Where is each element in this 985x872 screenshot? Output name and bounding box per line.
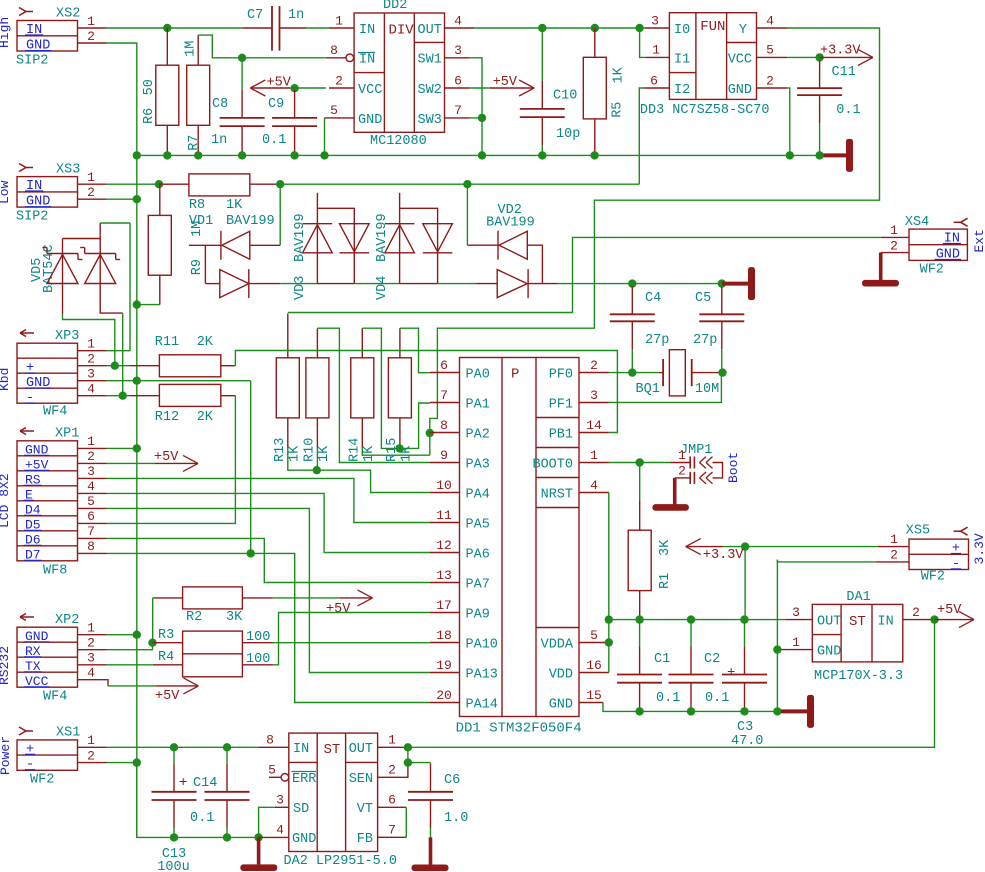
svg-text:5: 5 [87,494,95,509]
pin 20 DD1 PA14 [430,702,460,704]
svg-text:1: 1 [792,635,800,650]
pin 1 XP1 [78,447,107,449]
svg-text:5: 5 [590,628,598,643]
svg-text:Ext: Ext [972,229,985,252]
pin 4 XP3 [78,395,107,397]
capacitor C5 27p [721,284,723,287]
junction [133,758,141,766]
pin 2 XS1 [78,762,107,764]
svg-text:IN: IN [26,179,42,194]
svg-text:C14: C14 [193,776,217,791]
svg-text:15: 15 [586,688,602,703]
svg-text:0.1: 0.1 [656,691,680,706]
svg-text:PA5: PA5 [466,518,490,533]
svg-text:-: - [26,758,34,773]
svg-text:10M: 10M [695,382,719,397]
+3.3V distribution rail [609,619,786,621]
svg-text:BAV199: BAV199 [375,213,390,262]
svg-text:LCD 8X2: LCD 8X2 [0,473,12,528]
pin 1 DD1 BOOT0 [579,462,609,464]
junction DA2 OUT [404,743,412,751]
R4 left lead [153,664,183,666]
svg-text:VT: VT [357,802,373,817]
svg-text:+5V: +5V [267,76,292,91]
wire VD2 to C4/C5 ground rail [558,283,731,285]
svg-text:6: 6 [650,74,658,89]
pin 5 DD3 VCC [757,56,788,58]
pin 11 DD1 PA5 [430,522,460,524]
svg-text:10: 10 [436,478,452,493]
svg-text:IN: IN [359,23,375,38]
pin 15 DD1 GND [579,702,603,704]
svg-text:6: 6 [454,74,462,89]
svg-text:DA2 LP2951-5.0: DA2 LP2951-5.0 [284,854,397,869]
junction [133,631,141,639]
svg-text:Boot: Boot [726,452,741,483]
capacitor C3 47.0 [744,620,746,647]
svg-text:VD4: VD4 [375,276,390,300]
wire R2 left down to R3 node [152,598,154,643]
svg-text:R6: R6 [142,108,157,124]
resistor R2 3K [183,587,243,609]
svg-text:1: 1 [678,448,686,463]
svg-text:BAV199: BAV199 [486,216,535,231]
pin 1 DD3 I1 [646,56,669,58]
svg-text:MC12080: MC12080 [370,134,427,149]
svg-text:GND: GND [936,248,960,263]
svg-text:6: 6 [440,358,448,373]
wire main vertical to power GND rail [137,763,259,838]
svg-text:IN: IN [359,53,375,68]
power +5V arrow (XP2 VCC) [107,680,108,686]
pin 1 XP3 [78,350,107,352]
wire VD5 right to XP3.4 [122,313,124,396]
svg-text:XP1: XP1 [55,427,79,442]
wire XP1.GND to main vertical [107,447,137,449]
svg-text:RS232: RS232 [0,646,12,685]
svg-text:3: 3 [276,793,284,808]
svg-text:4: 4 [454,14,462,29]
svg-text:R12: R12 [155,410,179,425]
IC DD1 STM32F050F4 microcontroller [460,358,580,717]
pin 7 XP1 [78,537,107,539]
pin 17 DD1 PA9 [430,612,460,614]
svg-text:1: 1 [87,170,95,185]
svg-text:PA10: PA10 [466,638,498,653]
svg-text:PA4: PA4 [466,488,490,503]
junction R10 bottom [313,466,321,474]
svg-text:OUT: OUT [349,742,373,757]
svg-text:MCP170X-3.3: MCP170X-3.3 [814,669,903,684]
svg-text:FUN: FUN [700,19,725,35]
svg-text:WF4: WF4 [43,405,67,420]
wire XS2.1 to C7/DD2.IN [107,27,243,29]
wire VD1 bottom to clamp bus [280,283,317,285]
svg-text:R4: R4 [158,650,174,665]
svg-text:C5: C5 [695,291,711,306]
svg-text:2: 2 [590,358,598,373]
svg-text:SIP2: SIP2 [16,210,48,225]
wire main GND vertical (left column) [136,155,138,837]
svg-text:XS5: XS5 [906,524,930,539]
pin 12 DD1 PA6 [430,552,460,554]
wire OUT node down [408,747,431,762]
connector XS1 (Power, WF2) [17,740,78,770]
svg-text:IN: IN [944,232,960,247]
pin 8 XP1 [78,552,107,554]
svg-text:DA1: DA1 [846,590,870,605]
wire XP3.1 up to VD5 [107,223,130,351]
wire VD1 top to R8 junction [279,184,281,245]
pin 3 DD1 PF1 [579,402,609,404]
junction [741,542,749,550]
power +3.3V arrow (top right) [820,56,873,58]
pin 2 XS4 [881,252,909,254]
pin 2 DD1 PF0 [579,372,609,374]
svg-text:SEN: SEN [349,772,373,787]
junction C13 bottom [170,833,178,841]
svg-text:R1: R1 [658,573,673,589]
svg-text:1: 1 [87,733,95,748]
wire XP1.RS to PA5 [107,478,430,522]
svg-text:2K: 2K [197,410,214,425]
svg-text:PA2: PA2 [466,428,490,443]
svg-text:1: 1 [335,14,343,29]
svg-text:13: 13 [436,568,452,583]
svg-text:High: High [0,17,12,48]
svg-text:WF2: WF2 [30,773,54,788]
pin 4 DD3 Y [757,27,788,29]
junction C1 bottom [635,707,643,715]
svg-text:SD: SD [293,802,309,817]
svg-text:VCC: VCC [728,53,752,68]
junction C11 top [815,53,823,61]
wire BOOT0 to JMP1 [609,462,671,464]
connector XP3 (Kbd, WF4) [17,343,78,403]
power +5V arrow (DD2 VCC) [250,80,265,88]
svg-text:1: 1 [388,733,396,748]
resistor R10 1K [316,328,318,358]
pin 8 DD2 /IN with bubble [326,57,346,59]
junction C11 bottom [815,151,823,159]
svg-text:+: + [26,742,34,757]
wire Ext joint down to VD2 [466,184,468,245]
svg-text:VD3: VD3 [293,276,308,300]
svg-text:7: 7 [388,823,396,838]
svg-text:I1: I1 [674,53,690,68]
svg-text:1: 1 [590,448,598,463]
resistor R5 1K [594,28,596,57]
pin 8 DD1 PA2 [430,432,460,434]
R3 left lead [153,642,183,644]
pin 2 XP1 [78,462,107,464]
svg-text:Kbd: Kbd [0,368,12,391]
svg-text:Y: Y [739,23,747,38]
junction C14 bottom [223,833,231,841]
capacitor C7 1n [243,27,272,29]
wire XP3.3 column down to D7 row [250,381,252,554]
svg-text:100u: 100u [157,860,189,872]
wire DD2.OUT to DD3 inputs [474,27,645,29]
svg-text:C8: C8 [212,97,228,112]
junction VD5 left leg [111,362,119,370]
capacitor C14 0.1 [226,747,228,764]
wire DD3.GND to bus [787,88,790,155]
junction VDDA [605,638,613,646]
svg-text:Low: Low [0,180,12,204]
ground symbol bottom rail [781,709,807,713]
pin 3 XP1 [78,477,107,479]
ground symbol DA2 [257,837,261,864]
svg-text:1n: 1n [288,8,304,23]
capacitor C9 0.1 [294,88,296,90]
capacitor C6 1.0 [430,763,432,764]
pin 1 XS5 [878,546,909,548]
wire XP1.D7 to PA14 [107,553,430,702]
junction Ext/VD joint [463,180,471,188]
diode pair VD4 BAV199 [399,193,401,284]
resistor R6 50 [166,28,168,65]
pin 4 DD1 NRST [579,492,609,494]
wire XS3.2 to main GND vertical [107,198,137,200]
svg-text:+5V: +5V [326,602,351,617]
pin 18 DD1 PA10 [430,642,460,644]
VD5 left anode lead [62,284,64,314]
pin 6 DA2 VT [378,806,407,808]
svg-text:R5: R5 [611,102,626,118]
pin 2 DD2 VCC [329,87,354,89]
capacitor C11 0.1 [819,57,821,60]
svg-text:BOOT0: BOOT0 [532,458,573,473]
svg-text:2: 2 [388,763,396,778]
svg-text:I0: I0 [674,23,690,38]
wire XP2.RX up to R3 node [107,643,153,650]
junction DA1 GND column [773,707,781,715]
GND bus (top) [137,154,820,156]
pin 3 DD2 SW1 [445,57,470,59]
wire +3.3V column to C3 [744,547,746,620]
pin 7 DD2 SW3 [445,117,470,119]
svg-text:I2: I2 [674,83,690,98]
wire between VD3 and VD4 [354,283,399,285]
svg-text:27p: 27p [693,333,717,348]
svg-text:+5V: +5V [937,603,962,618]
wire +5V to DD2 pin2 [295,87,326,89]
junction C5 top [718,279,726,287]
wire XP3.3 to D7 column [107,380,251,382]
svg-text:8: 8 [330,43,338,58]
svg-text:DD1 STM32F050F4: DD1 STM32F050F4 [456,721,582,737]
svg-text:+3.3V: +3.3V [703,548,744,563]
svg-text:R7: R7 [187,135,202,151]
capacitor C13 100u [173,747,175,764]
junction PA2 node [426,429,434,437]
pin 6 XP1 [78,522,107,524]
wire R13/R10 bottoms to PA4 [288,448,430,493]
svg-text:IN: IN [293,742,309,757]
wire VD4 to VD2 [438,283,476,285]
svg-text:1K: 1K [226,198,243,213]
svg-text:+: + [179,775,187,791]
svg-text:PA9: PA9 [466,608,490,623]
wire VD5 left to XP3.2 [63,314,115,366]
resistor R13 1K [287,314,289,358]
svg-text:8: 8 [440,418,448,433]
junction C10 top [538,24,546,32]
pin 1 DD2 IN [329,27,354,29]
junction C10 bottom [538,151,546,159]
svg-text:1.0: 1.0 [444,811,468,826]
pin 19 DD1 PA13 [430,672,460,674]
wire NRST to VDD column [608,493,610,673]
svg-text:10p: 10p [556,127,580,142]
wire XP1.D4 to PA13 [107,508,430,672]
pin 4 XP2 [78,679,107,681]
junction C6 tap [404,758,412,766]
svg-text:+: + [727,665,735,681]
svg-text:C10: C10 [553,88,577,103]
connector XS5 (3.3V out, WF2) [909,539,969,569]
pin 9 DD1 PA3 [430,462,460,464]
IC DD2 MC12080 prescaler [354,13,444,132]
pin 2 XP3 [78,365,107,367]
pin 13 DD1 PA7 [430,582,460,584]
svg-text:9: 9 [440,448,448,463]
svg-text:20: 20 [436,688,452,703]
svg-text:PA14: PA14 [466,698,498,713]
svg-text:2: 2 [87,185,95,200]
svg-text:GND: GND [26,39,50,54]
svg-text:R10: R10 [303,438,318,462]
junction C8 top [238,54,246,62]
svg-text:3K: 3K [658,539,673,556]
wire PF1 to crystal [609,373,722,403]
svg-text:1: 1 [87,621,95,636]
pin 10 DD1 PA4 [430,492,460,494]
wire XS2.2 down to GND bus [107,43,137,155]
svg-text:SW3: SW3 [418,113,442,128]
svg-text:2: 2 [87,449,95,464]
svg-text:2: 2 [87,352,95,367]
pin 2 DA1 IN [903,619,933,621]
svg-text:2: 2 [678,464,686,479]
connector XS3 (Low input, SIP2) [17,177,78,208]
svg-text:PA6: PA6 [466,548,490,563]
svg-text:50: 50 [142,79,157,95]
power +3.3V arrow (XS5) [686,546,723,548]
svg-text:4: 4 [590,478,598,493]
svg-text:DD2: DD2 [383,0,407,13]
svg-text:0.1: 0.1 [705,691,729,706]
svg-text:3: 3 [590,388,598,403]
svg-text:8: 8 [87,539,95,554]
svg-text:6: 6 [87,509,95,524]
svg-text:5: 5 [330,103,338,118]
junction PF1/C5/BQ1 [718,368,726,376]
pin 2 XS5 [876,561,909,563]
wire XS1.- to main vertical [107,762,137,764]
pin 1 DA1 GND [777,649,812,651]
svg-text:5: 5 [766,43,774,58]
junction C14 top [223,743,231,751]
junction PF0/C4/BQ1 [628,368,636,376]
IC DA1 MCP170X-3.3 regulator [812,604,903,662]
VD5 common cathode link [63,238,101,240]
svg-text:XS2: XS2 [56,7,80,22]
junction R6 bottom [163,151,171,159]
wire XS3.1 to R8 [107,183,159,185]
svg-text:R9: R9 [190,259,205,275]
wire XP2.GND to main vertical [107,634,137,636]
svg-text:2: 2 [87,749,95,764]
svg-text:C11: C11 [832,65,856,80]
svg-text:3: 3 [454,43,462,58]
svg-text:WF8: WF8 [43,564,67,579]
wire XP1.E to PA6 [107,493,430,552]
svg-text:BQ1: BQ1 [636,382,660,397]
svg-text:DD3 NC7SZ58-SC70: DD3 NC7SZ58-SC70 [640,103,770,118]
power +5V arrow (XP1) [107,462,155,464]
svg-text:C9: C9 [268,97,284,112]
svg-text:3: 3 [792,605,800,620]
svg-text:1: 1 [890,532,898,547]
junction C8 bottom [238,151,246,159]
wire XS5.- down to DA1 GND [777,560,876,562]
pin 6 DD3 I2 [644,87,669,89]
svg-text:1: 1 [87,14,95,29]
pin 5 DD1 VDDA [579,642,609,644]
svg-text:4: 4 [87,666,95,681]
junction R5 top [591,24,599,32]
resistor R14 1K [361,328,363,358]
svg-text:PA1: PA1 [466,398,490,413]
svg-text:GND: GND [728,83,752,98]
svg-text:+3.3V: +3.3V [820,44,861,59]
wire VT to FB [405,807,407,837]
svg-text:NRST: NRST [541,488,573,503]
svg-text:19: 19 [436,658,452,673]
svg-text:WF2: WF2 [920,263,944,278]
wire XP1.D6 to PA7 [107,538,430,582]
svg-text:0.1: 0.1 [190,811,214,826]
svg-text:C2: C2 [704,652,720,667]
svg-text:C6: C6 [444,773,460,788]
svg-text:R13: R13 [273,438,288,462]
svg-text:PA13: PA13 [466,668,498,683]
junction C13 top [170,743,178,751]
svg-text:ERR: ERR [292,772,316,787]
wire VDDA stub [608,642,610,644]
svg-text:4: 4 [87,479,95,494]
svg-text:7: 7 [440,388,448,403]
junction GND bus start [133,151,141,159]
wire R3 to PA10 [242,642,272,644]
svg-text:16: 16 [586,658,602,673]
svg-text:Power: Power [0,736,13,775]
svg-text:IN: IN [878,615,894,630]
svg-text:XP2: XP2 [55,613,79,628]
svg-text:FB: FB [357,832,373,847]
wire DD3.Y long route to PA2 [430,28,880,455]
junction on GND vertical [133,195,141,203]
svg-text:XP3: XP3 [55,329,79,344]
junction D7 column [247,549,255,557]
svg-text:VD1: VD1 [189,214,213,229]
svg-text:3.3V: 3.3V [972,533,985,564]
ground symbol C6 [430,830,432,838]
svg-text:1K: 1K [362,445,377,462]
svg-text:+5V: +5V [154,450,179,465]
